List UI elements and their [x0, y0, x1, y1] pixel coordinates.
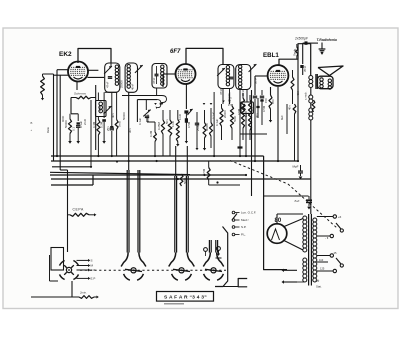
svg-text:Lun. O.C.F.: Lun. O.C.F. — [241, 211, 256, 215]
svg-text:25000: 25000 — [120, 80, 124, 88]
svg-text:25n: 25n — [106, 126, 110, 131]
svg-text:Rete: Rete — [46, 127, 50, 133]
svg-text:0.25M: 0.25M — [157, 122, 161, 130]
svg-text:C.F: C.F — [91, 268, 96, 272]
svg-text:0.1uF: 0.1uF — [212, 112, 216, 119]
svg-text:S A F A R “3 4 3”: S A F A R “3 4 3” — [164, 295, 207, 301]
svg-text:+ft: +ft — [338, 215, 341, 219]
svg-text:0.1: 0.1 — [72, 127, 76, 131]
svg-text:Med.!: Med.! — [241, 218, 249, 222]
svg-text:MpF: MpF — [293, 165, 299, 169]
svg-text:0.5M: 0.5M — [187, 121, 191, 128]
svg-text:0.2M: 0.2M — [99, 121, 103, 128]
svg-text:- ft: - ft — [325, 236, 328, 240]
svg-text:40nF: 40nF — [130, 83, 134, 90]
svg-text:110: 110 — [319, 258, 324, 262]
svg-text:35nF: 35nF — [303, 65, 307, 72]
svg-text:40n: 40n — [111, 113, 115, 118]
svg-text:Schermo: Schermo — [74, 92, 86, 96]
svg-text:B: B — [31, 121, 33, 125]
svg-text:40nF: 40nF — [98, 105, 102, 112]
svg-text:S: S — [91, 259, 93, 263]
svg-text:c.mob.: c.mob. — [304, 91, 308, 100]
svg-text:8uF: 8uF — [280, 115, 284, 120]
svg-text:0.2M: 0.2M — [149, 130, 153, 137]
svg-text:E.P: E.P — [91, 277, 96, 281]
svg-text:150: 150 — [264, 98, 268, 103]
svg-text:1mO: 1mO — [178, 113, 182, 120]
svg-text:0.5M: 0.5M — [262, 105, 266, 112]
svg-text:Stat.: Stat. — [316, 285, 322, 289]
svg-text:La): La) — [316, 279, 320, 283]
svg-text:P.L.: P.L. — [241, 233, 246, 237]
svg-text:5mO: 5mO — [117, 120, 121, 127]
svg-text:50n: 50n — [250, 107, 254, 112]
svg-text:10000: 10000 — [146, 114, 150, 122]
svg-text:47nF: 47nF — [219, 88, 223, 95]
svg-text:50000: 50000 — [122, 112, 126, 120]
svg-text:6F7: 6F7 — [170, 49, 181, 55]
svg-text:0.3M: 0.3M — [92, 121, 96, 128]
svg-text:S.P.: S.P. — [241, 225, 246, 229]
svg-text:125: 125 — [320, 267, 325, 271]
svg-text:50n: 50n — [165, 119, 169, 124]
svg-text:6000: 6000 — [61, 115, 65, 122]
svg-text:47nF: 47nF — [105, 81, 109, 88]
svg-text:47nF: 47nF — [152, 77, 156, 84]
svg-text:CEPA: CEPA — [73, 208, 85, 212]
svg-text:T.Radiofonia: T.Radiofonia — [317, 38, 337, 42]
svg-text:30000: 30000 — [205, 123, 209, 131]
svg-text:0.5M: 0.5M — [202, 168, 206, 175]
svg-text:EK2: EK2 — [59, 51, 72, 58]
svg-text:EBL1: EBL1 — [263, 52, 279, 59]
svg-text:8uF: 8uF — [295, 199, 300, 203]
svg-text:2mO: 2mO — [83, 118, 87, 125]
svg-text:1mO: 1mO — [171, 120, 175, 127]
svg-text:0.1uF: 0.1uF — [138, 118, 142, 125]
svg-text:2x500pF: 2x500pF — [294, 37, 309, 41]
svg-text:40n: 40n — [288, 105, 292, 110]
svg-text:2min.: 2min. — [79, 291, 87, 295]
svg-text:0.1uF: 0.1uF — [215, 119, 219, 126]
svg-text:20000: 20000 — [223, 110, 227, 118]
svg-text:30n: 30n — [128, 128, 132, 133]
svg-text:1mO: 1mO — [244, 110, 248, 117]
